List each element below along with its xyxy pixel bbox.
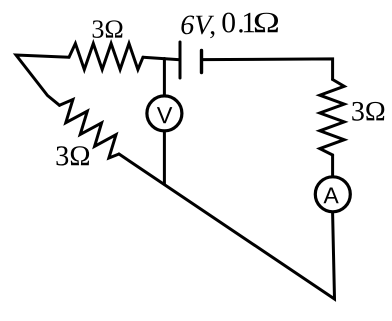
- label 3 ohm (top resistor R1): [93, 20, 123, 38]
- wire battery to top-right corner and down to R2: [202, 59, 333, 80]
- wire junction to voltmeter and down to diagonal: [163, 59, 166, 185]
- label 6V, 0.1 ohm (battery): [181, 16, 214, 35]
- wire R1 to battery positive plate: [143, 57, 180, 60]
- wire top-left corner: diagonal lead up to corner and across to R1: [16, 55, 69, 105]
- battery B1 long plate: [179, 42, 182, 78]
- battery B1 short plate: [200, 51, 203, 73]
- voltmeter U1 circle: [147, 96, 182, 131]
- wire R2 through ammeter down to bottom corner and diagonal back up to R3: [119, 154, 335, 299]
- label 3 ohm (diagonal resistor R3): [57, 146, 90, 165]
- resistor R2 3ohm (right vertical zigzag): [320, 80, 344, 156]
- label A (ammeter): [324, 188, 339, 204]
- resistor R1 3ohm (top horizontal zigzag): [69, 44, 143, 70]
- label 3 ohm (right resistor R2): [352, 102, 384, 121]
- resistor R3 3ohm (diagonal zigzag): [60, 100, 120, 159]
- label V (voltmeter): [157, 107, 172, 123]
- ammeter U2 circle: [315, 177, 350, 212]
